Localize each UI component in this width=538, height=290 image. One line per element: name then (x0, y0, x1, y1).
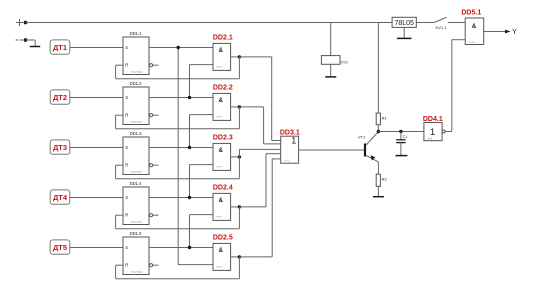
svg-text:561ТМ2: 561ТМ2 (131, 220, 142, 224)
svg-text:ДТ4: ДТ4 (53, 193, 68, 202)
wire DT1 to DD1.1 S input (70, 47, 123, 49)
svg-text:Y: Y (512, 29, 517, 36)
wire DD4.1 output to DD5.1 input (445, 40, 465, 132)
node DD2.5 output junction (238, 255, 241, 258)
wire DD1.1 inverted output stub (153, 64, 159, 66)
wire rail to R1 (377, 23, 379, 114)
latch DD1.1 (123, 31, 149, 74)
wire feedback DD2.1 output to DD1.1 R input (116, 57, 240, 79)
wire DD2.1 second input from DD1.2 output (190, 65, 214, 98)
svg-text:C1: C1 (403, 135, 408, 139)
inverted output bubble DD1.2 (150, 114, 153, 117)
ground (78L05) (397, 37, 412, 39)
wire DD1.3 inverted output stub (153, 164, 159, 166)
node common input (24, 38, 28, 42)
and-gate DD2.5 (213, 235, 233, 271)
node C1 junction (399, 130, 402, 133)
svg-text:R: R (125, 163, 128, 168)
wire DT2 to DD1.2 S input (70, 97, 123, 99)
wire DD3.1 output to VT1 base (299, 149, 364, 151)
svg-text:S: S (125, 195, 128, 200)
inverted output bubble DD4.1 (442, 130, 445, 133)
inverted output bubble DD1.5 (150, 264, 153, 267)
svg-text:и-не: и-не (216, 214, 222, 218)
ground (input common) (30, 46, 40, 48)
latch DD1.5 (123, 231, 149, 274)
node collector (377, 130, 380, 133)
svg-text:DD5.1: DD5.1 (461, 10, 481, 17)
wire collector node to DD4.1 input (378, 131, 424, 133)
wire DD1.5 inverted output stub (153, 264, 159, 266)
wire VT1 emitter to R2 (377, 162, 379, 174)
wire rail to relay coil KV1 (330, 23, 332, 56)
and-gate DD2.4 (213, 185, 233, 221)
inverted output bubble DD1.3 (150, 164, 153, 167)
svg-text:лн1: лн1 (427, 136, 432, 140)
and-gate DD2.3 (213, 135, 233, 171)
sensor DT4 (ДТ4) (50, 190, 70, 204)
wire DD1.2 inverted output stub (153, 114, 159, 116)
svg-text:лл1: лл1 (284, 159, 290, 163)
wire +V rail (26, 22, 466, 24)
svg-text:561ТМ2: 561ТМ2 (131, 70, 142, 74)
svg-text:R: R (125, 63, 128, 68)
node DD2.1 output junction (238, 55, 241, 58)
terminal common input (16, 39, 24, 41)
svg-text:1: 1 (291, 135, 296, 145)
wire DD1.3 Q output to DD2.3 (149, 147, 213, 149)
wire DD2.3 second input from DD1.4 output (190, 165, 214, 198)
relay coil KV1 (321, 56, 348, 65)
svg-text:DD3.1: DD3.1 (280, 129, 300, 136)
svg-text:DD1.3: DD1.3 (130, 131, 143, 136)
svg-text:&: & (219, 198, 224, 204)
wire feedback DD2.5 output to DD1.5 R input (116, 257, 240, 279)
svg-text:DD2.2: DD2.2 (213, 85, 233, 92)
ground (C1) (396, 155, 408, 157)
wire feedback DD2.4 output to DD1.4 R input (116, 207, 240, 229)
wire DD2.4 output to DD3.1 input 4 (239, 154, 280, 207)
and-gate DD2.1 (213, 35, 233, 71)
wire DT3 to DD1.3 S input (70, 147, 123, 149)
relay contact switch KV1.1 (434, 17, 447, 30)
terminal + (power input) (16, 19, 23, 26)
svg-text:DD1.1: DD1.1 (130, 31, 143, 36)
svg-text:561ТМ2: 561ТМ2 (131, 270, 142, 274)
svg-text:S: S (125, 95, 128, 100)
wire DD5.1 output to Y (484, 30, 511, 34)
inverted output bubble DD1.1 (150, 64, 153, 67)
node power input (24, 21, 28, 25)
wire DD1.5 Q output to DD2.5 (149, 247, 213, 249)
svg-text:DD2.5: DD2.5 (213, 235, 233, 242)
ground (R2) (373, 196, 384, 198)
svg-text:78L05: 78L05 (394, 20, 414, 27)
node on DD1.2 output line (188, 96, 191, 99)
and-gate DD5.1 (461, 10, 483, 45)
sensor DT3 (ДТ3) (50, 140, 70, 154)
inverter DD4.1 (423, 116, 443, 141)
inverted output bubble DD1.4 (150, 214, 153, 217)
latch DD1.2 (123, 81, 149, 124)
wire DD2.4 second input from DD1.5 output (190, 215, 214, 248)
wire DD2.1 output to DD3.1 input 1 (239, 57, 280, 141)
svg-text:и-не: и-не (216, 114, 222, 118)
svg-text:R1: R1 (382, 115, 388, 120)
transistor VT1 (358, 132, 379, 162)
svg-text:ДТ3: ДТ3 (53, 143, 67, 152)
svg-text:и-не: и-не (469, 40, 475, 44)
ground (KV1) (325, 76, 336, 78)
svg-text:561ТМ2: 561ТМ2 (131, 170, 142, 174)
svg-text:561ТМ2: 561ТМ2 (131, 120, 142, 124)
svg-text:&: & (472, 24, 477, 30)
svg-text:S: S (125, 45, 128, 50)
svg-text:R: R (125, 213, 128, 218)
wire DD1.1 Q output to DD2.1 (149, 47, 213, 49)
svg-text:&: & (219, 148, 224, 154)
wire DD2.2 second input from DD1.3 output (190, 115, 214, 148)
wire DD2.3 output (231, 156, 240, 158)
resistor R2 (376, 174, 387, 186)
svg-text:S: S (125, 145, 128, 150)
svg-text:DD2.4: DD2.4 (213, 185, 233, 192)
wire DT5 to DD1.5 S input (70, 247, 123, 249)
svg-text:DD2.1: DD2.1 (213, 35, 233, 42)
svg-text:DD1.5: DD1.5 (130, 231, 143, 236)
svg-text:DD4.1: DD4.1 (423, 116, 443, 123)
or-gate DD3.1 (280, 129, 300, 163)
sensor DT5 (ДТ5) (50, 240, 70, 254)
wire 78L05 to ground (403, 27, 405, 37)
latch DD1.3 (123, 131, 149, 174)
and-gate DD2.2 (213, 85, 233, 121)
wire R1 to collector node (377, 125, 379, 132)
svg-text:и-не: и-не (216, 164, 222, 168)
svg-text:DD2.3: DD2.3 (213, 135, 233, 142)
wire DD2.2 output to DD3.1 input 2 (239, 107, 280, 144)
svg-text:и-не: и-не (216, 264, 222, 268)
svg-text:и-не: и-не (216, 64, 222, 68)
node DD2.3 output junction (238, 155, 241, 158)
svg-text:S: S (125, 245, 128, 250)
svg-text:&: & (219, 248, 224, 254)
wire DD1.4 inverted output stub (153, 214, 159, 216)
wire DD2.4 output (231, 206, 240, 208)
wire DD1.2 Q output to DD2.2 (149, 97, 213, 99)
svg-text:R2: R2 (382, 176, 388, 181)
svg-text:ДТ5: ДТ5 (53, 243, 67, 252)
wire DD2.5 output (231, 256, 240, 258)
wire DD2.3 output to DD3.1 input 3 (239, 149, 280, 157)
svg-text:KV1: KV1 (341, 61, 348, 65)
svg-text:&: & (219, 48, 224, 54)
wire KV1 to ground (330, 64, 332, 76)
svg-text:DD1.4: DD1.4 (130, 181, 143, 186)
svg-text:VT1: VT1 (358, 135, 366, 140)
wire feedback DD2.3 output to DD1.3 R input (116, 157, 240, 179)
wire feedback DD2.2 output to DD1.2 R input (116, 107, 240, 129)
svg-text:ДТ1: ДТ1 (53, 43, 67, 52)
wire DT4 to DD1.4 S input (70, 197, 123, 199)
svg-text:KV1.1: KV1.1 (436, 25, 448, 30)
node on DD1.5 output line (188, 246, 191, 249)
node on DD1.1 output line (177, 46, 180, 49)
svg-text:R: R (125, 263, 128, 268)
voltage regulator 78L05 (392, 17, 416, 27)
wire DD2.5 output to DD3.1 input 5 (239, 159, 280, 257)
wire DD2.1 output (231, 56, 240, 58)
resistor R1 (376, 113, 387, 125)
latch DD1.4 (123, 181, 149, 224)
node on DD1.3 output line (188, 146, 191, 149)
svg-text:&: & (219, 98, 224, 104)
wire DD1.4 Q output to DD2.4 (149, 197, 213, 199)
svg-text:ДТ2: ДТ2 (53, 93, 67, 102)
node DD2.4 output junction (238, 205, 241, 208)
wire DD2.2 output (231, 106, 240, 108)
wire DD2.5 second input from DD1.1 output (178, 48, 213, 265)
node DD2.2 output junction (238, 105, 241, 108)
sensor DT2 (ДТ2) (50, 90, 70, 104)
wire common to ground (26, 40, 36, 46)
node on DD1.4 output line (188, 196, 191, 199)
capacitor C1 (396, 132, 407, 156)
svg-text:DD1.2: DD1.2 (130, 81, 143, 86)
wire R2 to ground (377, 186, 379, 196)
svg-text:R: R (125, 113, 128, 118)
sensor DT1 (ДТ1) (50, 40, 70, 54)
